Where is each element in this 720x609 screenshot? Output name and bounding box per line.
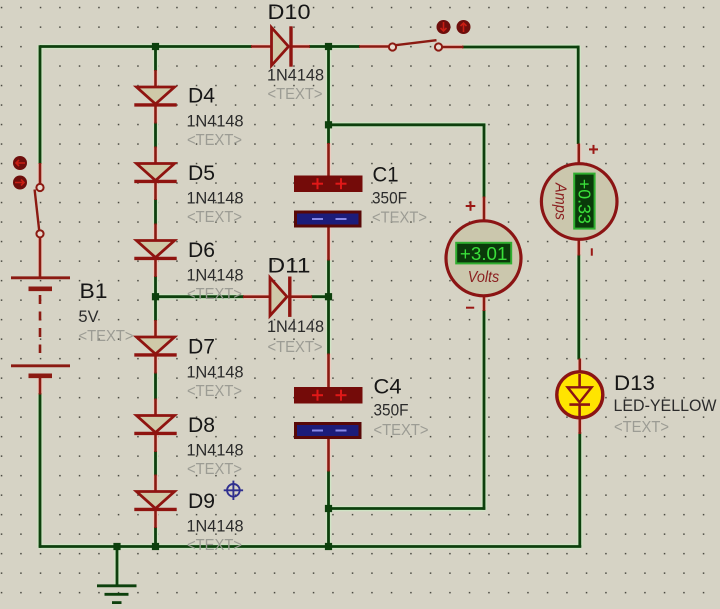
svg-text:<TEXT>: <TEXT> [187,537,242,554]
svg-text:D11: D11 [268,253,311,277]
pin switch SW1 to battery [39,237,42,278]
wire diode chain seg2 [154,123,157,148]
svg-text:<TEXT>: <TEXT> [268,86,323,103]
label D8 TEXT placeholder [187,461,242,478]
svg-text:+0.33: +0.33 [574,179,594,224]
pin diode chain D6 [154,224,157,278]
pin LED cathode [578,417,581,435]
label C4 value [374,401,409,419]
svg-text:D4: D4 [188,84,215,108]
svg-text:D13: D13 [614,371,655,395]
wire ammeter to LED [577,255,580,360]
label D5 TEXT placeholder [187,209,242,226]
diode D5 [134,164,176,182]
diode D8 [134,416,176,434]
origin marker (blue crosshair) [224,481,243,500]
svg-text:C4: C4 [374,374,402,398]
pin diode chain D7 [154,320,157,374]
label D7 designator [188,334,215,358]
pin diode chain D8 [154,399,157,453]
label D10 designator [268,0,311,24]
switch SW1 (battery switch) [35,184,44,238]
label D13 designator [614,371,655,395]
diode D11 [270,277,290,317]
wire top net right (switch to ammeter corner) [462,46,580,49]
label C4 TEXT placeholder [374,422,429,439]
svg-text:5V: 5V [79,308,99,326]
junction cap column / D11 [325,293,332,300]
svg-text:LED-YELLOW: LED-YELLOW [614,397,718,415]
pin diode chain D5 [154,147,157,201]
diode D7 [134,337,176,355]
wire node A to D11 anode [154,295,244,298]
svg-text:<TEXT>: <TEXT> [372,210,427,227]
label D6 value [187,267,244,285]
label B1 designator [80,279,108,303]
svg-text:1N4148: 1N4148 [187,518,244,536]
svg-text:<TEXT>: <TEXT> [187,383,242,400]
capacitor C4 [294,387,363,439]
label B1 TEXT placeholder [79,328,134,345]
svg-text:<TEXT>: <TEXT> [268,339,323,356]
pin diode chain D4 [154,70,157,124]
voltmeter minus sign [466,307,474,309]
label D13 TEXT placeholder [614,419,669,436]
svg-text:<TEXT>: <TEXT> [614,419,669,436]
label D11 TEXT placeholder [268,339,323,356]
junction top wire / diode chain [152,43,159,50]
wire diode chain seg7 [154,527,157,548]
wire top net mid (D10 cathode to switch) [309,45,360,48]
label B1 value [79,308,99,326]
junction top wire / cap column [325,43,332,50]
label D5 value [187,190,244,208]
svg-text:Volts: Volts [468,269,500,286]
pin C1 top [327,143,330,177]
switch SW2 button up-arrow [457,20,471,34]
label D6 designator [188,238,215,262]
wire cap column top [327,45,330,144]
svg-text:1N4148: 1N4148 [187,442,244,460]
label D4 designator [188,84,215,108]
pin LED anode [578,359,581,375]
label D8 value [187,442,244,460]
svg-text:D8: D8 [188,413,215,437]
wire voltmeter minus horizontal [327,507,485,510]
svg-text:1N4148: 1N4148 [187,267,244,285]
wire halo layer [39,45,581,584]
svg-text:<TEXT>: <TEXT> [187,132,242,149]
wire voltmeter plus vertical [483,124,486,198]
svg-text:1N4148: 1N4148 [187,190,244,208]
diode D9 [134,492,176,510]
label C1 value [372,189,407,207]
pin D11 cathode [291,295,312,298]
label D11 value [267,318,324,336]
label D4 value [187,112,244,130]
label D7 value [187,364,244,382]
label D7 TEXT placeholder [187,383,242,400]
svg-text:D7: D7 [188,334,215,358]
svg-text:B1: B1 [80,279,108,303]
battery B1 [11,278,70,376]
wire bottom rail [39,545,581,548]
junction bottom rail / ground [113,543,120,550]
label C1 designator [373,163,399,187]
wire diode chain seg5 [154,373,157,400]
junction bottom rail / diode chain [152,543,159,550]
label C4 designator [374,374,402,398]
svg-text:1N4148: 1N4148 [187,364,244,382]
switch SW2 (output switch) [389,40,442,50]
label D10 TEXT placeholder [268,86,323,103]
pin switch SW2 left [359,45,389,48]
svg-text:D5: D5 [188,161,215,185]
wire diode chain seg6 [154,451,157,476]
switch SW2 button down-arrow [437,20,451,34]
label D9 TEXT placeholder [187,537,242,554]
label D8 designator [188,413,215,437]
svg-text:+3.01: +3.01 [460,244,508,264]
junction bottom rail / cap column [325,543,332,550]
label D4 TEXT placeholder [187,132,242,149]
svg-text:<TEXT>: <TEXT> [187,286,242,303]
svg-text:<TEXT>: <TEXT> [187,209,242,226]
switch SW1 button up-arrow (left) [13,156,27,170]
junction cap column / voltmeter minus [325,505,332,512]
switch SW1 button down-arrow (right) [13,176,27,190]
pin C1 bottom [327,226,330,261]
pin D10 anode [251,45,272,48]
wire diode chain seg1 [154,45,157,71]
pin diode chain D9 [154,475,157,529]
svg-text:Amps: Amps [552,182,569,220]
pin D11 anode [243,295,270,298]
voltmeter plus sign [466,201,476,211]
wire left rail upper [39,45,42,164]
wire top net left [40,45,252,48]
svg-text:350F: 350F [372,189,407,207]
svg-text:D10: D10 [268,0,311,24]
pin battery bottom [39,377,42,395]
capacitor C1 [294,176,363,228]
pin ammeter plus [577,144,580,166]
wire diode chain seg4 (node to D11) [154,276,157,321]
diode D4 [134,87,176,105]
pin C4 top [327,354,330,389]
wire left rail lower (battery to bottom) [39,393,42,548]
svg-text:D9: D9 [188,489,215,513]
wire voltmeter minus vertical [483,310,486,510]
svg-text:1N4148: 1N4148 [187,112,244,130]
pin D10 cathode [292,45,310,48]
wire cap column C1-C4 [327,260,330,355]
svg-text:C1: C1 [373,163,399,187]
voltmeter (Volts probe) [446,221,521,296]
wire LED bottom drop [578,432,581,548]
svg-text:<TEXT>: <TEXT> [374,422,429,439]
pin C4 bottom [327,439,330,472]
ammeter plus sign [589,145,598,154]
wire voltmeter plus horizontal [327,123,485,126]
LED D13 [557,372,603,418]
diode D10 [272,26,292,66]
ammeter (Amps probe) [541,164,617,240]
diode D6 [134,241,176,259]
pin voltmeter plus [483,197,486,223]
junction diode chain node A [152,293,159,300]
ammeter minus sign (rotated) [591,248,593,255]
label D11 designator [268,253,311,277]
label D9 value [187,518,244,536]
wire D11 cathode to cap column [311,295,330,298]
svg-text:350F: 350F [374,401,409,419]
pin voltmeter minus [483,295,486,312]
label D5 designator [188,161,215,185]
pin ammeter minus [577,239,580,256]
label C1 TEXT placeholder [372,210,427,227]
junction cap column / voltmeter plus [325,121,332,128]
label D9 designator [188,489,215,513]
svg-text:1N4148: 1N4148 [267,318,324,336]
svg-text:D6: D6 [188,238,215,262]
label D10 value [267,66,324,84]
ground [97,545,137,603]
pin switch SW1 top [39,163,42,184]
svg-text:<TEXT>: <TEXT> [79,328,134,345]
wire cap column bottom [327,471,330,548]
label D13 value [614,397,718,415]
svg-text:1N4148: 1N4148 [267,66,324,84]
wire diode chain seg3 [154,199,157,225]
wire ammeter drop [577,46,580,144]
svg-text:<TEXT>: <TEXT> [187,461,242,478]
pin switch SW2 right [442,46,464,49]
label D6 TEXT placeholder [187,286,242,303]
